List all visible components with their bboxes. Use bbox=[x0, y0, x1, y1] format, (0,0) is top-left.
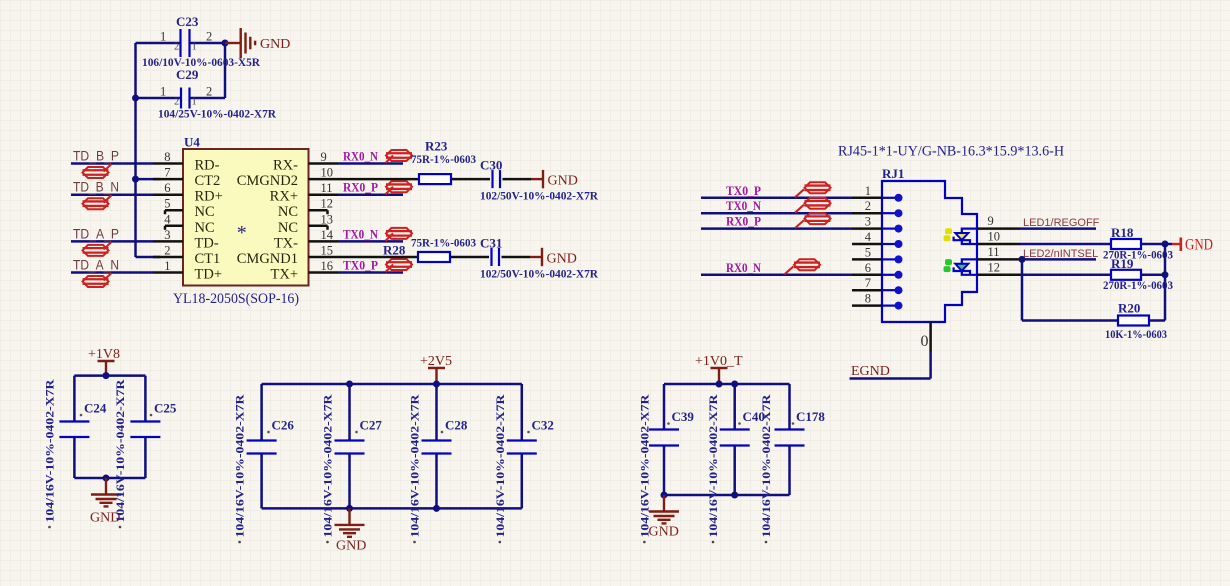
svg-text:8: 8 bbox=[164, 150, 170, 164]
svg-text:C29: C29 bbox=[176, 67, 199, 82]
svg-text:75R-1%-0603: 75R-1%-0603 bbox=[411, 152, 476, 166]
svg-text:14: 14 bbox=[321, 228, 334, 242]
svg-text:GND: GND bbox=[336, 539, 366, 554]
svg-text:2: 2 bbox=[174, 42, 179, 53]
svg-text:TD-: TD- bbox=[195, 235, 219, 251]
svg-text:TX0_N: TX0_N bbox=[726, 199, 761, 213]
svg-text:1: 1 bbox=[164, 259, 170, 273]
svg-text:11: 11 bbox=[988, 245, 1000, 259]
svg-text:EGND: EGND bbox=[851, 364, 890, 379]
svg-text:YL18-2050S(SOP-16): YL18-2050S(SOP-16) bbox=[173, 291, 299, 307]
svg-text:RX-: RX- bbox=[273, 158, 298, 174]
svg-text:10: 10 bbox=[988, 230, 1001, 244]
svg-text:TD_B_N: TD_B_N bbox=[73, 180, 119, 195]
svg-text:104/16V-10%-0402-X7R: 104/16V-10%-0402-X7R bbox=[43, 379, 57, 522]
svg-text:+1V8: +1V8 bbox=[88, 347, 120, 362]
svg-text:104/16V-10%-0402-X7R: 104/16V-10%-0402-X7R bbox=[233, 394, 247, 537]
svg-text:CT1: CT1 bbox=[195, 251, 221, 267]
svg-text:CMGND2: CMGND2 bbox=[237, 173, 298, 189]
svg-text:6: 6 bbox=[865, 261, 871, 275]
svg-text:104/16V-10%-0402-X7R: 104/16V-10%-0402-X7R bbox=[759, 394, 773, 537]
svg-text:C26: C26 bbox=[272, 418, 295, 433]
svg-text:1: 1 bbox=[160, 85, 166, 99]
svg-text:4: 4 bbox=[164, 212, 171, 226]
svg-text:106/10V-10%-0603-X5R: 106/10V-10%-0603-X5R bbox=[142, 55, 260, 69]
svg-text:LED1/REGOFF: LED1/REGOFF bbox=[1023, 217, 1100, 229]
svg-text:C25: C25 bbox=[154, 401, 177, 416]
svg-text:6: 6 bbox=[164, 181, 170, 195]
svg-text:7: 7 bbox=[865, 276, 871, 290]
svg-text:270R-1%-0603: 270R-1%-0603 bbox=[1103, 278, 1173, 292]
svg-text:7: 7 bbox=[164, 166, 170, 180]
svg-text:TX0_N: TX0_N bbox=[343, 227, 378, 241]
svg-text:C30: C30 bbox=[480, 158, 502, 173]
svg-text:TD+: TD+ bbox=[195, 267, 223, 283]
svg-text:RX+: RX+ bbox=[270, 189, 298, 205]
svg-text:1: 1 bbox=[160, 30, 166, 44]
svg-text:0: 0 bbox=[921, 333, 929, 350]
svg-text:2: 2 bbox=[206, 85, 212, 99]
svg-text:9: 9 bbox=[988, 214, 994, 228]
svg-text:RX0_P: RX0_P bbox=[726, 215, 761, 229]
svg-text:104/16V-10%-0402-X7R: 104/16V-10%-0402-X7R bbox=[706, 394, 720, 537]
svg-text:GND: GND bbox=[1185, 237, 1213, 254]
svg-text:C32: C32 bbox=[532, 418, 554, 433]
svg-text:2: 2 bbox=[206, 30, 212, 44]
svg-text:15: 15 bbox=[321, 244, 334, 258]
svg-text:12: 12 bbox=[321, 197, 334, 211]
svg-text:1: 1 bbox=[865, 184, 871, 198]
svg-text:CMGND1: CMGND1 bbox=[237, 251, 298, 267]
svg-text:C39: C39 bbox=[672, 409, 695, 424]
svg-text:RJ45-1*1-UY/G-NB-16.3*15.9*13.: RJ45-1*1-UY/G-NB-16.3*15.9*13.6-H bbox=[838, 144, 1064, 160]
svg-text:NC: NC bbox=[278, 220, 298, 236]
svg-text:11: 11 bbox=[321, 181, 333, 195]
svg-text:104/16V-10%-0402-X7R: 104/16V-10%-0402-X7R bbox=[408, 394, 422, 537]
svg-text:3: 3 bbox=[865, 215, 871, 229]
svg-text:RD-: RD- bbox=[195, 158, 220, 174]
svg-text:10: 10 bbox=[321, 166, 334, 180]
svg-text:C178: C178 bbox=[796, 409, 825, 424]
svg-text:NC: NC bbox=[195, 204, 215, 220]
svg-text:1: 1 bbox=[192, 97, 197, 108]
svg-text:+1V0_T: +1V0_T bbox=[695, 354, 743, 369]
svg-text:NC: NC bbox=[278, 204, 298, 220]
svg-text:C27: C27 bbox=[360, 418, 383, 433]
svg-text:9: 9 bbox=[321, 150, 327, 164]
svg-text:RD+: RD+ bbox=[195, 189, 223, 205]
svg-text:TD_B_P: TD_B_P bbox=[73, 149, 119, 164]
svg-text:*: * bbox=[237, 222, 247, 244]
svg-text:3: 3 bbox=[164, 228, 170, 242]
svg-text:13: 13 bbox=[321, 212, 334, 226]
svg-text:R28: R28 bbox=[383, 243, 406, 258]
svg-text:16: 16 bbox=[321, 259, 334, 273]
svg-text:4: 4 bbox=[865, 230, 872, 244]
svg-text:R19: R19 bbox=[1111, 256, 1134, 271]
svg-text:TD_A_N: TD_A_N bbox=[73, 258, 119, 273]
svg-text:RX0_N: RX0_N bbox=[343, 150, 378, 164]
svg-text:GND: GND bbox=[548, 174, 578, 189]
svg-text:C24: C24 bbox=[84, 401, 107, 416]
svg-text:NC: NC bbox=[195, 220, 215, 236]
svg-text:10K-1%-0603: 10K-1%-0603 bbox=[1105, 327, 1167, 341]
svg-text:RX0_N: RX0_N bbox=[726, 261, 761, 275]
svg-text:TX+: TX+ bbox=[270, 267, 298, 283]
svg-text:GND: GND bbox=[547, 252, 577, 267]
svg-text:R20: R20 bbox=[1118, 301, 1140, 316]
svg-text:12: 12 bbox=[988, 260, 1001, 274]
svg-text:C31: C31 bbox=[480, 236, 502, 251]
svg-text:102/50V-10%-0402-X7R: 102/50V-10%-0402-X7R bbox=[480, 189, 598, 203]
svg-text:TX0_P: TX0_P bbox=[343, 259, 378, 273]
svg-text:104/16V-10%-0402-X7R: 104/16V-10%-0402-X7R bbox=[493, 394, 507, 537]
svg-text:104/16V-10%-0402-X7R: 104/16V-10%-0402-X7R bbox=[637, 394, 651, 537]
svg-text:5: 5 bbox=[164, 197, 170, 211]
svg-text:2: 2 bbox=[174, 97, 179, 108]
svg-text:1: 1 bbox=[192, 42, 197, 53]
svg-text:RJ1: RJ1 bbox=[882, 166, 904, 181]
svg-text:R18: R18 bbox=[1111, 225, 1134, 240]
svg-text:CT2: CT2 bbox=[195, 173, 221, 189]
svg-text:2: 2 bbox=[164, 244, 170, 258]
svg-text:+2V5: +2V5 bbox=[420, 354, 452, 369]
svg-text:75R-1%-0603: 75R-1%-0603 bbox=[411, 236, 476, 250]
svg-text:TX0_P: TX0_P bbox=[726, 184, 761, 198]
svg-text:LED2/nINTSEL: LED2/nINTSEL bbox=[1023, 248, 1098, 260]
svg-text:104/16V-10%-0402-X7R: 104/16V-10%-0402-X7R bbox=[321, 394, 335, 537]
svg-text:104/16V-10%-0402-X7R: 104/16V-10%-0402-X7R bbox=[113, 379, 127, 522]
svg-text:TD_A_P: TD_A_P bbox=[73, 226, 119, 241]
svg-text:RX0_P: RX0_P bbox=[343, 181, 378, 195]
svg-text:5: 5 bbox=[865, 245, 871, 259]
svg-text:GND: GND bbox=[260, 37, 290, 52]
svg-text:2: 2 bbox=[865, 199, 871, 213]
svg-text:TX-: TX- bbox=[274, 235, 298, 251]
svg-text:8: 8 bbox=[865, 292, 871, 306]
svg-text:102/50V-10%-0402-X7R: 102/50V-10%-0402-X7R bbox=[480, 267, 598, 281]
svg-text:C23: C23 bbox=[176, 14, 199, 29]
svg-text:104/25V-10%-0402-X7R: 104/25V-10%-0402-X7R bbox=[158, 107, 276, 121]
svg-text:C28: C28 bbox=[445, 418, 468, 433]
svg-text:U4: U4 bbox=[184, 135, 200, 150]
svg-text:GND: GND bbox=[649, 525, 679, 540]
